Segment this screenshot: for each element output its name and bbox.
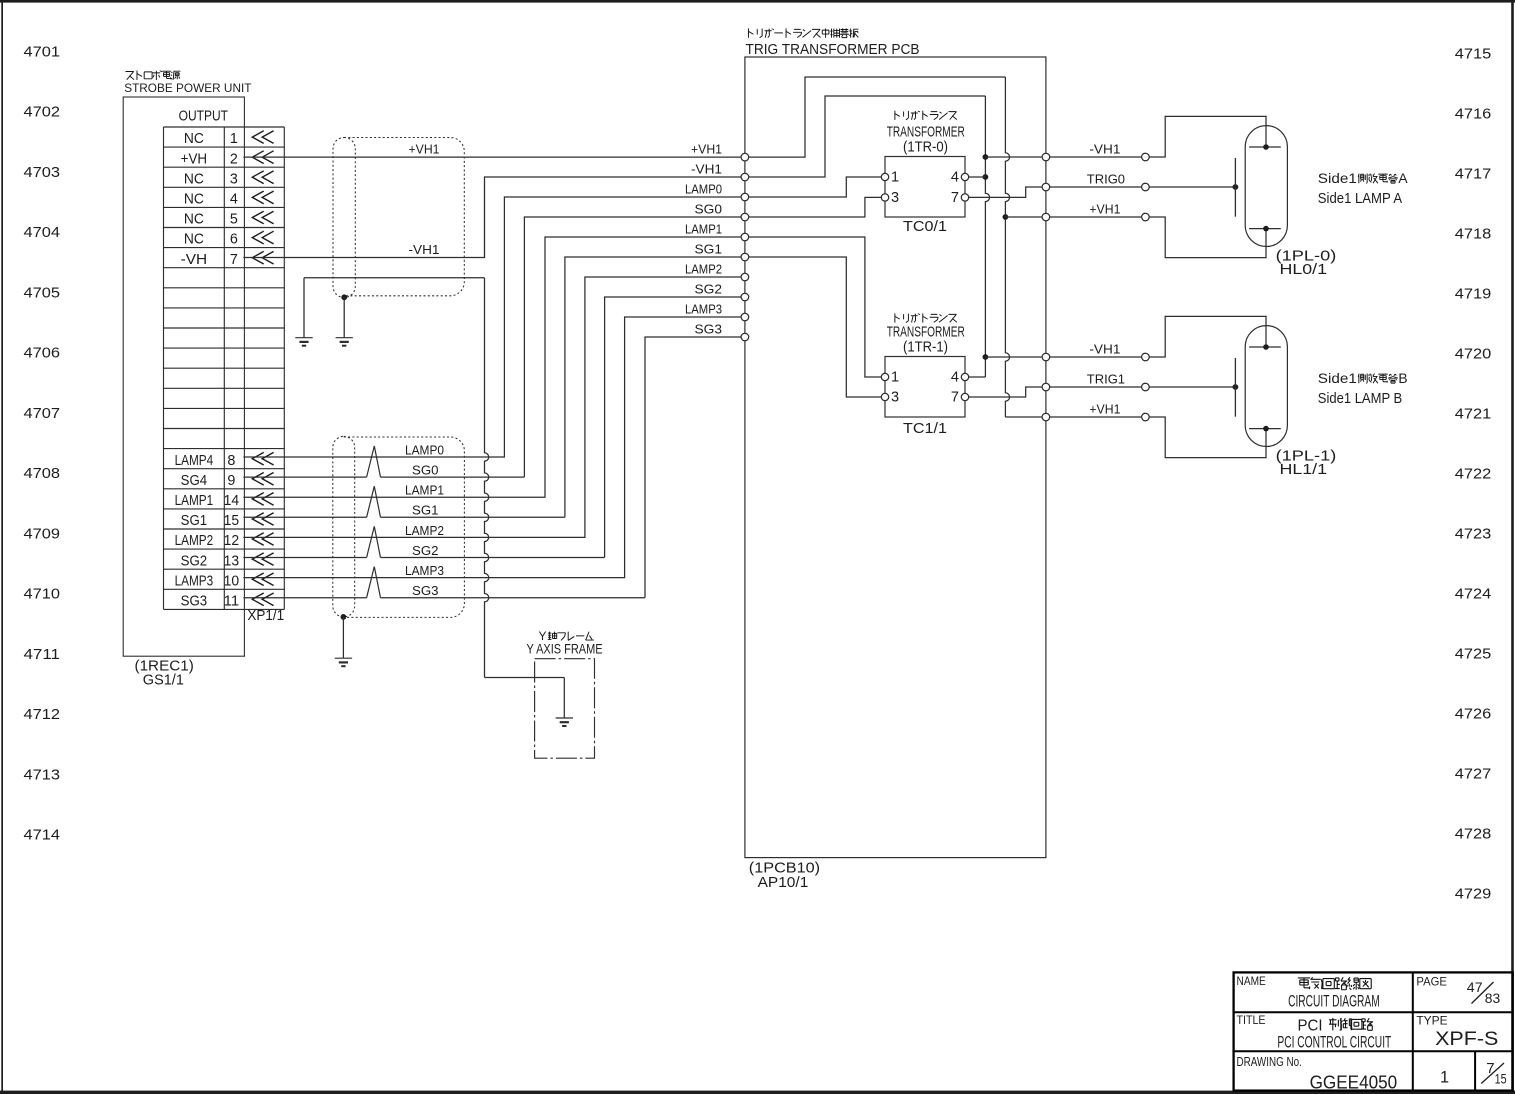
svg-text:12: 12: [224, 533, 240, 549]
wire LAMP1 to TC1 pin 1: [749, 237, 881, 377]
svg-text:2: 2: [230, 151, 238, 167]
wire LAMP0 to TC0 pin 1: [749, 177, 881, 197]
trigger electrode plate (lamp B1): [1234, 358, 1236, 417]
svg-text:SG0: SG0: [412, 463, 439, 478]
wire -VH1 branch to right terminal (lamp A): [985, 156, 1042, 158]
svg-text:LAMP1: LAMP1: [175, 493, 214, 509]
svg-text:4725: 4725: [1455, 645, 1492, 662]
PCB right edge terminals: [1042, 153, 1050, 421]
svg-text:OUTPUT: OUTPUT: [179, 109, 229, 125]
wire +VH1 to lamp A0 cathode: [1050, 217, 1266, 258]
svg-text:4703: 4703: [24, 164, 61, 181]
svg-text:LAMP3: LAMP3: [405, 563, 444, 578]
svg-text:4720: 4720: [1455, 345, 1492, 362]
shield drain wire to ground (signal cable): [342, 617, 344, 658]
TC0 pin 3: [881, 190, 899, 206]
svg-text:XPF-S: XPF-S: [1435, 1029, 1498, 1050]
svg-text:4728: 4728: [1455, 825, 1492, 842]
svg-text:4723: 4723: [1455, 525, 1492, 542]
label: strobe power unit (Japanese): [125, 71, 180, 81]
svg-text:NC: NC: [184, 171, 204, 187]
svg-text:HL1/1: HL1/1: [1280, 462, 1328, 478]
wire -VH1 to lamp B1 anode: [1050, 316, 1266, 357]
svg-text:LAMP3: LAMP3: [175, 573, 214, 589]
TC1 pin 3: [881, 390, 899, 406]
svg-text:SG0: SG0: [695, 202, 723, 217]
chassis ground symbol (Y axis frame): [556, 718, 573, 726]
svg-text:NC: NC: [184, 192, 204, 208]
transformer TC1 body: [885, 357, 965, 418]
Y axis frame chassis boundary (dash-dot box): [535, 659, 595, 759]
svg-text:4727: 4727: [1455, 765, 1492, 782]
svg-text:LAMP2: LAMP2: [405, 523, 444, 538]
label: circuit diagram (Japanese): [1298, 977, 1371, 990]
svg-text:47: 47: [1467, 980, 1483, 995]
PCB board outline AP10/1 (1PCB10): [745, 57, 1046, 858]
svg-text:XP1/1: XP1/1: [247, 608, 284, 624]
svg-text:LAMP0: LAMP0: [685, 182, 722, 197]
wire +VH (pin2) to PCB +VH1: [243, 156, 741, 158]
svg-text:SG2: SG2: [695, 282, 723, 297]
svg-text:TYPE: TYPE: [1416, 1013, 1447, 1027]
svg-text:13: 13: [224, 553, 240, 569]
svg-text:Side1: Side1: [1318, 371, 1357, 386]
TC1 pin 4: [951, 370, 969, 386]
wire -VH1 to TC0 pin 4: [969, 176, 985, 178]
svg-text:4708: 4708: [24, 465, 61, 482]
svg-text:(1TR-0): (1TR-0): [903, 139, 948, 156]
svg-text:NC: NC: [184, 232, 204, 248]
svg-text:Side1 LAMP A: Side1 LAMP A: [1318, 191, 1403, 207]
svg-text:3: 3: [891, 190, 899, 206]
svg-text:PAGE: PAGE: [1416, 975, 1447, 989]
svg-text:TC1/1: TC1/1: [903, 420, 947, 437]
connector pin table XP1/1 grid: [164, 127, 285, 609]
svg-text:PCI CONTROL CIRCUIT: PCI CONTROL CIRCUIT: [1277, 1032, 1391, 1051]
receptacle chevron contacts for pins 1-7: [252, 131, 273, 264]
svg-text:-VH: -VH: [181, 252, 208, 268]
svg-text:+VH1: +VH1: [409, 141, 440, 156]
wire LAMP0 from pin table to PCB: [243, 197, 741, 457]
svg-text:LAMP1: LAMP1: [405, 483, 444, 498]
wire SG0 to TC0 pin 3: [749, 197, 881, 217]
svg-text:B: B: [1398, 371, 1407, 386]
net +VH1 internal routing (top rail): [749, 77, 1042, 417]
wire TRIG0 to trigger electrode: [1050, 186, 1236, 188]
TC0 pin 7: [951, 190, 969, 206]
svg-text:NC: NC: [184, 212, 204, 228]
svg-text:4714: 4714: [24, 827, 61, 844]
svg-text:-VH1: -VH1: [409, 242, 440, 257]
svg-text:4721: 4721: [1455, 405, 1492, 422]
trigger electrode plate (lamp A0): [1234, 158, 1236, 217]
wire LAMP3 from pin table to PCB: [243, 317, 741, 578]
svg-text:+VH1: +VH1: [1089, 201, 1120, 216]
label: Side1 lamp B (Japanese): [1318, 371, 1408, 386]
svg-text:4702: 4702: [24, 104, 61, 121]
svg-text:4719: 4719: [1455, 285, 1492, 302]
connector node -VH1 (lamp B1): [1142, 353, 1150, 361]
chassis ground symbol (left): [295, 338, 312, 346]
wire +VH1 to lamp B1 cathode: [1050, 417, 1266, 458]
TC1 pin 7: [951, 390, 969, 406]
svg-text:4724: 4724: [1455, 585, 1492, 602]
pin table row labels and pin numbers: [175, 131, 240, 609]
sheet 7/15: [1481, 1060, 1507, 1086]
svg-text:4726: 4726: [1455, 705, 1492, 722]
wire TC0 pin 7 to TRIG0 terminal: [969, 187, 1042, 197]
connector node -VH1 (lamp A0): [1142, 153, 1150, 161]
svg-text:TC0/1: TC0/1: [903, 218, 947, 235]
svg-text:9: 9: [227, 473, 235, 489]
svg-text:SG2: SG2: [181, 553, 208, 569]
svg-text:5: 5: [230, 212, 238, 228]
svg-text:-VH1: -VH1: [691, 162, 722, 177]
label: Y axis frame (Japanese): [539, 629, 594, 643]
svg-text:SG1: SG1: [412, 503, 439, 518]
svg-text:GS1/1: GS1/1: [143, 673, 184, 689]
svg-text:1: 1: [891, 370, 899, 386]
svg-text:Side1 LAMP B: Side1 LAMP B: [1318, 391, 1402, 407]
wire +VH1 branch to right terminal (lamp A): [1005, 216, 1042, 218]
svg-text:Side1: Side1: [1318, 171, 1357, 186]
svg-text:1: 1: [230, 131, 238, 147]
svg-text:11: 11: [224, 594, 240, 610]
svg-text:10: 10: [224, 573, 240, 589]
svg-text:NC: NC: [184, 131, 204, 147]
wire TRIG1 to trigger electrode: [1050, 386, 1236, 388]
junction node trigger electrode: [1233, 184, 1239, 190]
svg-text:+VH1: +VH1: [691, 142, 722, 157]
svg-text:4709: 4709: [24, 525, 61, 542]
wire TC1 pin 7 to TRIG1 terminal: [969, 387, 1042, 397]
TC0 pin 4: [951, 170, 969, 186]
TC1 pin 1: [881, 370, 899, 386]
svg-text:HL0/1: HL0/1: [1280, 262, 1328, 278]
svg-text:GGEE4050: GGEE4050: [1310, 1071, 1398, 1092]
svg-text:(1TR-1): (1TR-1): [903, 339, 948, 356]
svg-text:4705: 4705: [24, 284, 61, 301]
svg-text:15: 15: [224, 513, 240, 529]
svg-text:14: 14: [224, 493, 240, 509]
twisted-pair spike symbols in cable: [367, 446, 381, 598]
svg-text:4729: 4729: [1455, 885, 1492, 902]
junction node +VH1 / lamp A branch: [1003, 214, 1009, 220]
wire SG1 to TC1 pin 3: [749, 257, 881, 397]
svg-text:3: 3: [891, 390, 899, 406]
svg-text:CIRCUIT DIAGRAM: CIRCUIT DIAGRAM: [1288, 992, 1380, 1011]
chassis ground symbol (top cable shield): [336, 338, 353, 346]
cable shield (signal cable) junction node: [341, 614, 347, 620]
left margin grid row numbers 4701-4714: [24, 43, 61, 843]
cable shield (top cable) junction node: [341, 294, 347, 300]
lamp B1 top electrode: [1249, 344, 1281, 350]
cable core labels LAMP0..SG3: [405, 442, 444, 598]
svg-text:7: 7: [951, 390, 959, 406]
svg-text:4716: 4716: [1455, 105, 1492, 122]
svg-text:SG1: SG1: [695, 242, 723, 257]
wire SG2 from pin table to PCB: [243, 297, 741, 558]
svg-text:4712: 4712: [24, 706, 61, 723]
transformer TC0 body: [885, 157, 965, 218]
wire LAMP1 from pin table to PCB: [243, 237, 741, 497]
wire shield/frame ground run: [304, 278, 564, 718]
svg-text:4706: 4706: [24, 345, 61, 362]
svg-text:8: 8: [227, 453, 235, 469]
svg-text:LAMP2: LAMP2: [175, 533, 214, 549]
svg-text:NAME: NAME: [1237, 974, 1266, 988]
svg-text:15: 15: [1495, 1070, 1507, 1086]
junction node -VH1 / lamp A branch: [983, 154, 989, 160]
svg-text:SG4: SG4: [181, 473, 208, 489]
TC0 pin 1: [881, 170, 899, 186]
svg-text:4717: 4717: [1455, 165, 1492, 182]
strobe power unit outline box (1REC1): [123, 97, 244, 656]
wire -VH (pin7) to PCB -VH1: [243, 177, 741, 258]
wire LAMP2 from pin table to PCB: [243, 277, 741, 537]
svg-text:A: A: [1398, 171, 1408, 186]
svg-text:-VH1: -VH1: [1089, 341, 1120, 356]
receptacle chevron contacts for pins 8-11,14,15: [252, 452, 273, 605]
svg-text:TRIG0: TRIG0: [1087, 171, 1125, 186]
label: Side1 lamp A (Japanese): [1318, 171, 1409, 186]
svg-text:SG3: SG3: [412, 583, 439, 598]
svg-text:4704: 4704: [24, 224, 61, 241]
flash lamp A0 envelope: [1245, 126, 1287, 247]
svg-text:SG3: SG3: [695, 322, 723, 337]
svg-text:DRAWING No.: DRAWING No.: [1237, 1054, 1302, 1069]
svg-text:4722: 4722: [1455, 465, 1492, 482]
svg-text:1: 1: [891, 170, 899, 186]
junction node -VH1 / lamp B branch: [983, 354, 989, 360]
svg-text:+VH1: +VH1: [1089, 401, 1120, 416]
svg-text:SG1: SG1: [181, 513, 208, 529]
svg-text:1: 1: [1440, 1068, 1449, 1086]
svg-text:SG3: SG3: [181, 594, 208, 610]
svg-text:LAMP0: LAMP0: [405, 442, 444, 457]
svg-text:-VH1: -VH1: [1089, 141, 1120, 156]
chassis ground symbol (signal cable shield): [335, 658, 352, 666]
junction node -VH1 / TC0 pin4: [983, 174, 989, 180]
svg-text:SG2: SG2: [412, 543, 439, 558]
svg-text:LAMP4: LAMP4: [175, 453, 214, 469]
svg-text:4718: 4718: [1455, 225, 1492, 242]
connector node +VH1 (lamp A0): [1142, 213, 1150, 221]
svg-text:4713: 4713: [24, 766, 61, 783]
connector node TRIG (lamp A0): [1142, 183, 1150, 191]
junction node trigger electrode: [1233, 384, 1239, 390]
svg-text:LAMP3: LAMP3: [685, 302, 722, 317]
label: trigger transformer (Japanese) TC0: [895, 111, 957, 120]
lamp A0 top electrode: [1249, 144, 1281, 150]
svg-text:TRIG1: TRIG1: [1087, 371, 1125, 386]
svg-text:83: 83: [1485, 991, 1501, 1006]
flash lamp B1 envelope: [1245, 326, 1287, 447]
svg-text:TRIG TRANSFORMER PCB: TRIG TRANSFORMER PCB: [746, 41, 920, 58]
svg-text:4: 4: [951, 370, 959, 386]
PCB left edge terminals: [741, 153, 749, 341]
lamp B1 bottom electrode: [1249, 426, 1281, 432]
svg-text:4: 4: [951, 170, 959, 186]
connector node TRIG (lamp B1): [1142, 383, 1150, 391]
label: trigger transformer (Japanese) TC1: [895, 313, 957, 322]
shielded cable symbol (signal pairs): [333, 436, 465, 617]
svg-text:TITLE: TITLE: [1237, 1013, 1266, 1027]
wire -VH1 branch to right terminal (lamp B): [985, 356, 1042, 358]
svg-text:3: 3: [230, 171, 238, 187]
wire SG0 from pin table to PCB: [243, 217, 741, 477]
svg-text:Y AXIS FRAME: Y AXIS FRAME: [527, 641, 603, 657]
shield drain wire to ground: [343, 297, 345, 337]
svg-text:LAMP2: LAMP2: [685, 262, 722, 277]
label: PCI control circuit (Japanese): [1298, 1018, 1374, 1035]
net -VH1 internal routing: [749, 96, 990, 377]
title block frame: [1234, 972, 1513, 1090]
wire SG1 from pin table to PCB: [243, 257, 741, 517]
svg-text:4710: 4710: [24, 586, 61, 603]
svg-text:AP10/1: AP10/1: [758, 875, 809, 891]
connector node +VH1 (lamp B1): [1142, 413, 1150, 421]
svg-text:4711: 4711: [24, 646, 61, 663]
svg-text:7: 7: [230, 252, 238, 268]
wire -VH1 to lamp A0 anode: [1050, 116, 1266, 157]
svg-text:LAMP1: LAMP1: [685, 222, 722, 237]
svg-text:6: 6: [230, 232, 238, 248]
svg-text:STROBE POWER UNIT: STROBE POWER UNIT: [124, 81, 252, 95]
page number 47/83: [1467, 980, 1501, 1006]
wire SG3 from pin table to PCB: [243, 337, 741, 598]
lamp A0 bottom electrode: [1249, 226, 1281, 232]
svg-text:4701: 4701: [24, 43, 61, 60]
svg-text:4: 4: [230, 192, 238, 208]
svg-text:7: 7: [951, 190, 959, 206]
svg-text:4707: 4707: [24, 405, 61, 422]
label: trig transformer relay board (Japanese): [748, 28, 858, 37]
svg-text:4715: 4715: [1455, 45, 1492, 62]
right margin grid row numbers 4715-4729: [1455, 45, 1492, 902]
shielded cable symbol (power pair): [333, 138, 464, 298]
PCB-side wire labels +VH1..SG3: [685, 142, 722, 337]
svg-text:+VH: +VH: [181, 151, 208, 167]
